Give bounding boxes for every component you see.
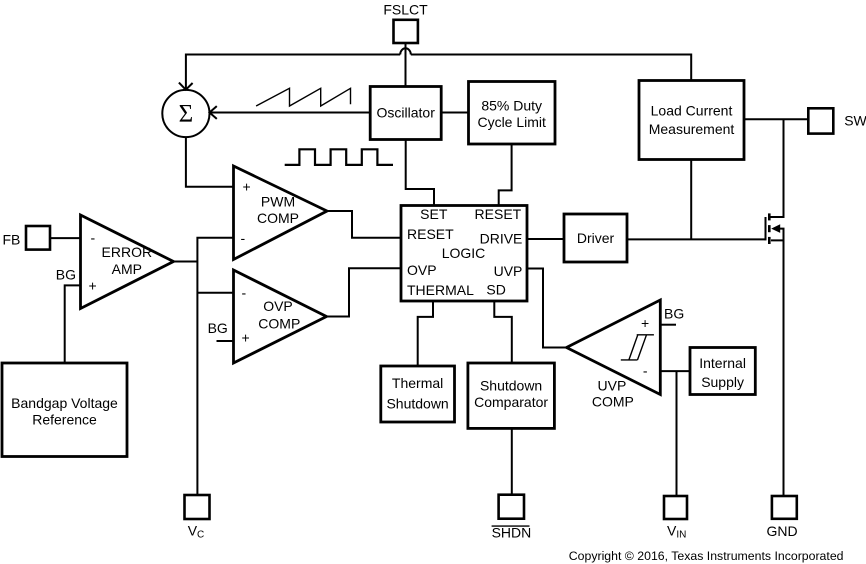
svg-text:PWM: PWM — [261, 194, 295, 210]
svg-text:GND: GND — [767, 523, 798, 539]
svg-text:Measurement: Measurement — [649, 121, 735, 137]
svg-text:Σ: Σ — [179, 101, 194, 128]
svg-text:THERMAL: THERMAL — [407, 282, 474, 298]
svg-text:AMP: AMP — [112, 261, 142, 277]
svg-text:ERROR: ERROR — [102, 244, 153, 260]
svg-text:FB: FB — [3, 232, 21, 248]
svg-text:RESET: RESET — [407, 226, 454, 242]
svg-text:-: - — [242, 285, 247, 301]
svg-text:+: + — [242, 330, 250, 346]
svg-text:SHDN: SHDN — [492, 525, 532, 541]
svg-text:Shutdown: Shutdown — [480, 378, 542, 394]
svg-text:+: + — [243, 179, 251, 195]
svg-text:SD: SD — [486, 281, 505, 297]
svg-text:BG: BG — [208, 320, 228, 336]
svg-text:Bandgap Voltage: Bandgap Voltage — [11, 395, 118, 411]
svg-text:Driver: Driver — [577, 230, 615, 246]
svg-text:Supply: Supply — [701, 374, 744, 390]
svg-text:COMP: COMP — [257, 210, 299, 226]
svg-text:OVP: OVP — [407, 262, 437, 278]
svg-text:SET: SET — [420, 206, 448, 222]
svg-text:DRIVE: DRIVE — [480, 230, 523, 246]
svg-text:-: - — [241, 230, 246, 246]
svg-text:Load Current: Load Current — [651, 103, 733, 119]
svg-text:RESET: RESET — [475, 206, 522, 222]
svg-text:+: + — [641, 315, 649, 331]
svg-text:COMP: COMP — [592, 394, 634, 410]
svg-text:UVP: UVP — [598, 377, 627, 393]
svg-text:Shutdown: Shutdown — [386, 396, 448, 412]
svg-text:UVP: UVP — [494, 263, 523, 279]
svg-text:Copyright © 2016, Texas Instru: Copyright © 2016, Texas Instruments Inco… — [569, 549, 844, 563]
svg-text:Internal: Internal — [699, 355, 746, 371]
svg-text:+: + — [89, 278, 97, 294]
svg-text:85% Duty: 85% Duty — [481, 98, 542, 114]
svg-text:Comparator: Comparator — [474, 394, 548, 410]
svg-text:Cycle Limit: Cycle Limit — [477, 114, 546, 130]
svg-text:Oscillator: Oscillator — [377, 105, 436, 121]
svg-text:SW: SW — [844, 113, 866, 129]
svg-text:-: - — [643, 363, 648, 379]
svg-text:Thermal: Thermal — [392, 375, 443, 391]
svg-text:COMP: COMP — [258, 316, 300, 332]
svg-text:BG: BG — [664, 306, 684, 322]
svg-text:Reference: Reference — [32, 412, 97, 428]
svg-text:FSLCT: FSLCT — [383, 2, 428, 18]
svg-text:BG: BG — [56, 267, 76, 283]
svg-text:LOGIC: LOGIC — [442, 245, 486, 261]
svg-text:OVP: OVP — [263, 298, 293, 314]
svg-text:-: - — [91, 230, 96, 246]
